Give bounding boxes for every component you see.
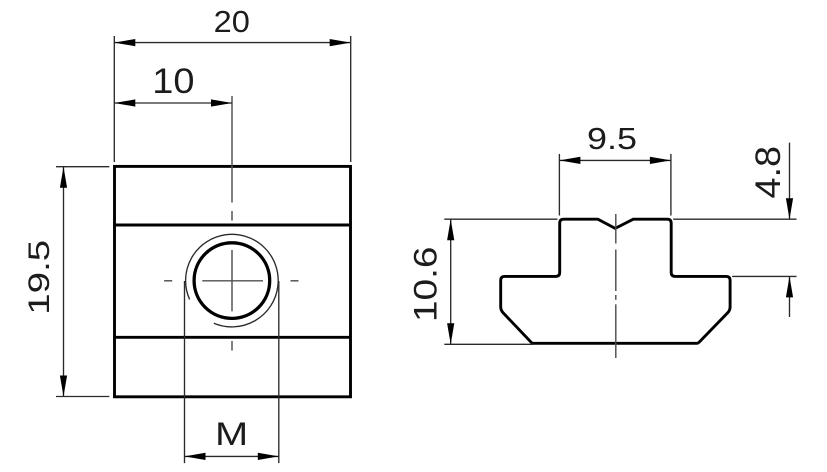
svg-text:10.6: 10.6 bbox=[408, 246, 444, 322]
svg-text:M: M bbox=[215, 416, 248, 452]
dimension 9.5: extension lines bbox=[558, 154, 560, 216]
dimension 4.8: dimension line upper bbox=[789, 143, 791, 220]
top view: upper slot edge line bbox=[115, 224, 351, 227]
tapped hole: minor-diameter bold circle bbox=[194, 243, 270, 319]
dimension M: dimension line bbox=[185, 455, 279, 457]
dimension 4.8: extension lines bbox=[673, 218, 796, 220]
svg-text:9.5: 9.5 bbox=[587, 121, 637, 156]
dimension 10.6: extension lines bbox=[444, 218, 557, 220]
dimension 19.5: extension lines bbox=[56, 166, 109, 168]
svg-text:19.5: 19.5 bbox=[23, 240, 56, 315]
dimension 4.8: dimension line lower bbox=[789, 276, 791, 317]
side view: T-nut profile outline bbox=[501, 219, 730, 343]
side view vertical centerline bbox=[615, 214, 617, 358]
svg-text:20: 20 bbox=[214, 4, 250, 39]
tapped hole: thread major-diameter thin arc bbox=[186, 234, 279, 327]
hole horizontal centerline bbox=[164, 280, 298, 282]
dimension 20: extension lines bbox=[113, 36, 115, 162]
dimension 20: dimension line bbox=[114, 42, 350, 44]
dimension 10.6: dimension line bbox=[450, 219, 452, 344]
svg-text:10: 10 bbox=[152, 62, 194, 101]
dimension 9.5: dimension line bbox=[559, 159, 671, 161]
dimension 19.5: dimension line bbox=[63, 167, 65, 397]
hole vertical centerline bbox=[231, 96, 233, 351]
dimension M: extension lines bbox=[184, 281, 186, 463]
dimension 10: dimension line bbox=[114, 102, 232, 104]
top view: lower slot edge line bbox=[115, 336, 351, 339]
top view: nut body outline bbox=[115, 166, 351, 396]
svg-text:4.8: 4.8 bbox=[749, 146, 788, 199]
